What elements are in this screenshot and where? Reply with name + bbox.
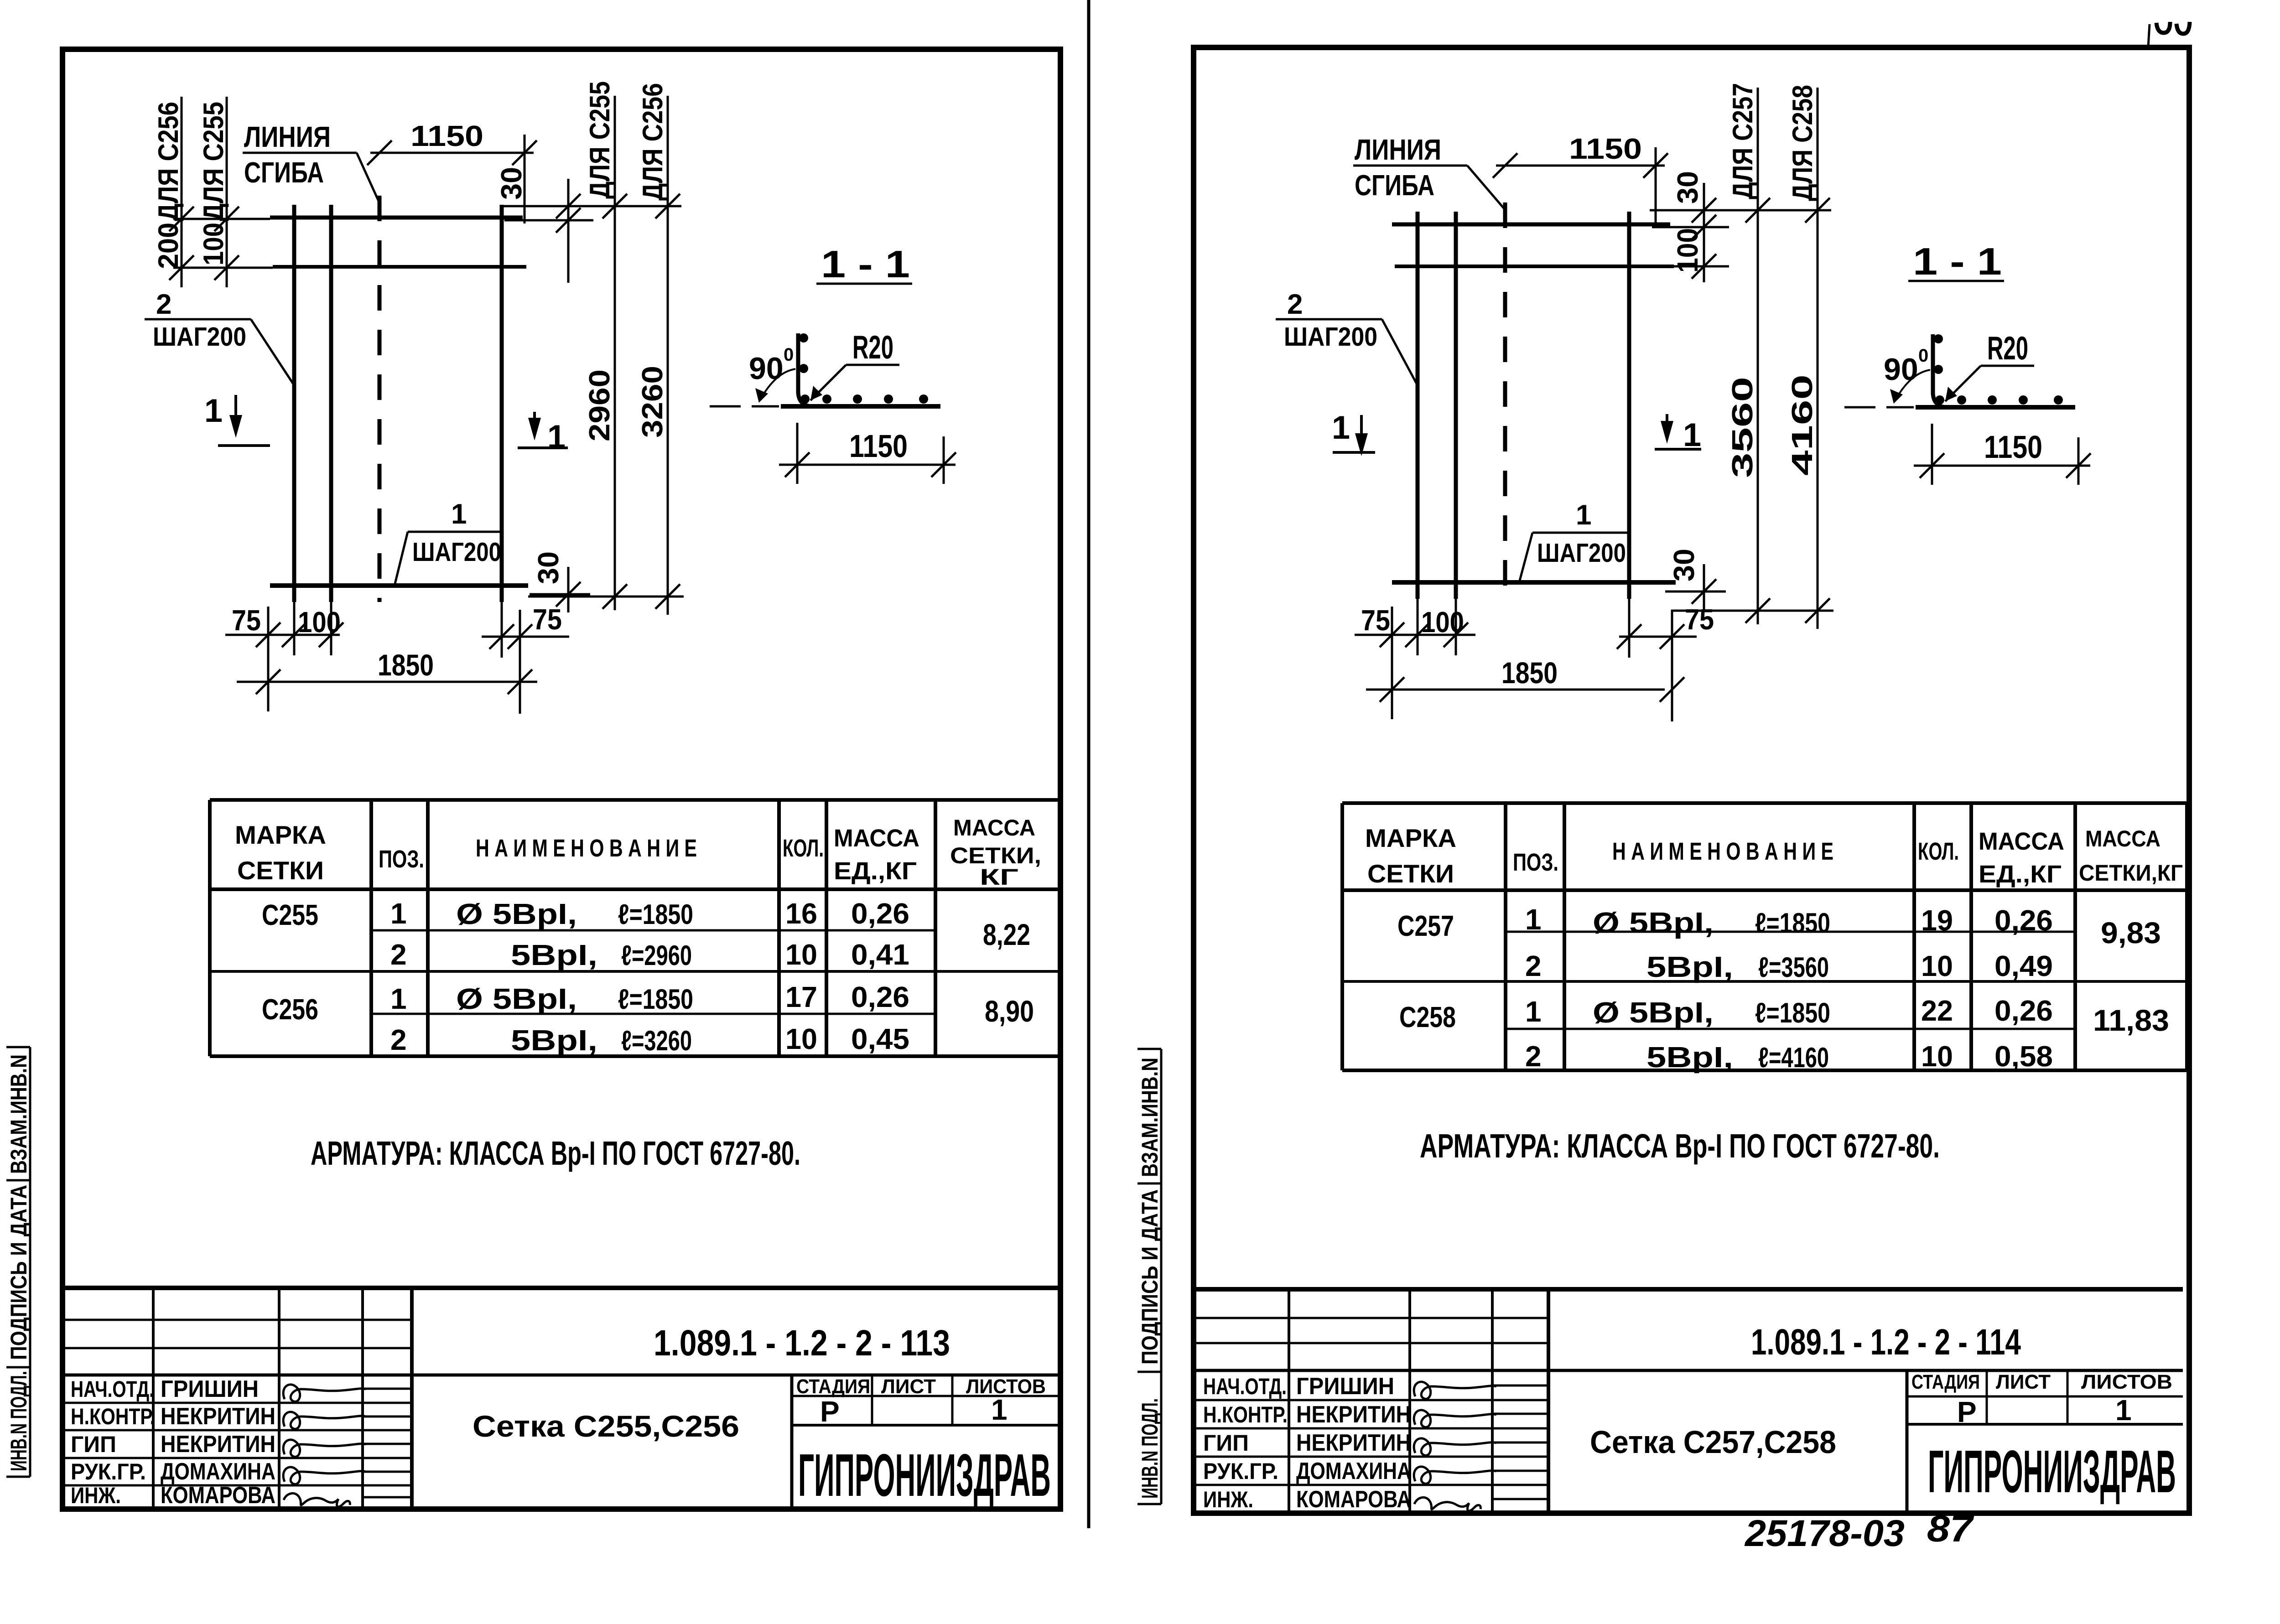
section: mesh bar (horizontal): [781, 404, 940, 409]
svg-text:1150: 1150: [849, 428, 908, 464]
svg-text:СЕТКИ: СЕТКИ: [1367, 859, 1454, 888]
svg-text:ЕД.,КГ: ЕД.,КГ: [834, 857, 917, 885]
svg-text:КОЛ.: КОЛ.: [1918, 838, 1959, 865]
svg-text:РУК.ГР.: РУК.ГР.: [1203, 1458, 1278, 1484]
dimension 1850 (bottom): [237, 681, 537, 683]
svg-text:90: 90: [1884, 352, 1918, 387]
svg-text:КОМАРОВА: КОМАРОВА: [161, 1482, 275, 1509]
svg-text:5ВрI,: 5ВрI,: [1646, 950, 1733, 983]
svg-text:КОМАРОВА: КОМАРОВА: [1296, 1486, 1411, 1513]
section: bent bar end with R20 bend: [1933, 334, 1948, 407]
svg-text:ИНВ.N ПОДЛ.: ИНВ.N ПОДЛ.: [1137, 1398, 1163, 1499]
stage/sheet table: [871, 1375, 873, 1425]
svg-text:АРМАТУРА: КЛАССА Вр-I ПО ГОСТ: АРМАТУРА: КЛАССА Вр-I ПО ГОСТ 6727-80.: [1420, 1127, 1940, 1165]
svg-text:ВЗАМ.ИНВ.N: ВЗАМ.ИНВ.N: [6, 1054, 31, 1174]
svg-text:17: 17: [785, 981, 817, 1013]
svg-text:0,26: 0,26: [1994, 994, 2053, 1027]
dimension 30 (bottom right, rotated): [1665, 591, 1726, 593]
svg-text:МАССА: МАССА: [1979, 828, 2064, 855]
svg-text:ℓ=1850: ℓ=1850: [618, 984, 693, 1015]
svg-text:1 - 1: 1 - 1: [1913, 240, 2002, 283]
svg-text:1: 1: [991, 1393, 1008, 1426]
specification table grid: [210, 798, 1060, 802]
svg-text:100: 100: [1421, 606, 1464, 638]
svg-text:ℓ=4160: ℓ=4160: [1758, 1042, 1829, 1074]
svg-text:СТАДИЯ: СТАДИЯ: [1911, 1371, 1980, 1393]
svg-text:СТАДИЯ: СТАДИЯ: [796, 1375, 870, 1398]
svg-text:ℓ=1850: ℓ=1850: [618, 899, 693, 930]
svg-text:ПОЗ.: ПОЗ.: [1513, 849, 1558, 876]
title block verticals: [1288, 1289, 1290, 1513]
svg-text:ЛИСТ: ЛИСТ: [881, 1375, 936, 1398]
svg-text:МАРКА: МАРКА: [235, 820, 326, 849]
svg-text:СГИБА: СГИБА: [244, 156, 324, 189]
svg-text:0: 0: [1918, 346, 1928, 366]
svg-text:ℓ=1850: ℓ=1850: [1755, 908, 1830, 939]
svg-text:3260: 3260: [636, 366, 669, 438]
svg-text:16: 16: [785, 897, 817, 930]
svg-text:ПОЗ.: ПОЗ.: [379, 846, 424, 873]
svg-text:С256: С256: [262, 993, 318, 1026]
section: wire dots on horizontal bar: [800, 394, 810, 404]
svg-text:1: 1: [1525, 995, 1542, 1028]
svg-text:Ø 5ВрI,: Ø 5ВрI,: [456, 898, 577, 930]
svg-text:75: 75: [533, 603, 562, 636]
svg-text:Ø 5ВрI,: Ø 5ВрI,: [1593, 906, 1714, 939]
svg-text:1 - 1: 1 - 1: [821, 243, 910, 285]
svg-text:10: 10: [1921, 1040, 1953, 1073]
svg-text:2: 2: [1525, 949, 1542, 982]
mesh longitudinal bar 2: [329, 205, 333, 602]
svg-text:5ВрI,: 5ВрI,: [511, 1024, 597, 1057]
signature row lines: [62, 1402, 412, 1404]
svg-text:1: 1: [390, 982, 407, 1015]
svg-text:1: 1: [1576, 499, 1591, 531]
mesh longitudinal bar 1: [1416, 212, 1420, 599]
svg-text:0,26: 0,26: [1994, 904, 2053, 937]
svg-text:ГРИШИН: ГРИШИН: [1296, 1373, 1394, 1400]
svg-text:0,49: 0,49: [1994, 949, 2053, 982]
leader to fold line: [1467, 166, 1505, 210]
svg-text:ЕД.,КГ: ЕД.,КГ: [1979, 861, 2062, 888]
svg-text:19: 19: [1921, 904, 1953, 937]
title block (right): [1195, 1287, 2183, 1292]
svg-text:1150: 1150: [1984, 429, 2042, 465]
svg-text:ПОДПИСЬ И ДАТА: ПОДПИСЬ И ДАТА: [6, 1185, 31, 1360]
svg-text:Сетка С257,С258: Сетка С257,С258: [1590, 1424, 1836, 1460]
section dimension 1150: [1914, 465, 2090, 467]
svg-text:МАССА: МАССА: [834, 825, 919, 852]
page corner mark (top right, partially cut): [2148, 24, 2150, 47]
dimension 1150 (top): [1496, 165, 1665, 167]
svg-text:5ВрI,: 5ВрI,: [511, 939, 597, 971]
mesh transverse bar bottom: [270, 583, 528, 588]
signatures (handwritten squiggles): [1414, 1382, 1496, 1399]
title block small revision rows: [62, 1319, 412, 1321]
svg-text:НЕКРИТИН: НЕКРИТИН: [161, 1403, 275, 1430]
svg-text:ГИП: ГИП: [71, 1432, 116, 1457]
svg-text:ДОМАХИНА: ДОМАХИНА: [1296, 1458, 1411, 1484]
svg-text:Н А И М Е Н О В А Н И Е: Н А И М Е Н О В А Н И Е: [1612, 838, 1833, 865]
svg-text:1850: 1850: [1501, 656, 1558, 690]
title block (left): [62, 1286, 1060, 1290]
svg-text:РУК.ГР.: РУК.ГР.: [71, 1459, 146, 1484]
signature row lines: [1195, 1399, 1548, 1401]
svg-text:30: 30: [1671, 171, 1704, 204]
dimension line B (overall length): [1817, 88, 1819, 629]
title block verticals: [152, 1288, 155, 1509]
svg-text:1150: 1150: [410, 119, 483, 152]
svg-text:Н.КОНТР.: Н.КОНТР.: [1203, 1402, 1288, 1427]
dimension 75 (bottom right): [1619, 636, 1697, 638]
mesh fold line (dashed): [378, 196, 382, 602]
svg-text:30: 30: [1667, 549, 1700, 581]
svg-text:ГИПРОНИИЗДРАВ: ГИПРОНИИЗДРАВ: [798, 1442, 1051, 1509]
mesh transverse bar top: [1392, 223, 1670, 227]
svg-text:ДЛЯ С256: ДЛЯ С256: [153, 102, 184, 221]
svg-text:ГРИШИН: ГРИШИН: [161, 1376, 259, 1402]
svg-text:НАЧ.ОТД.: НАЧ.ОТД.: [71, 1376, 154, 1402]
svg-text:Р: Р: [820, 1395, 840, 1428]
svg-text:Сетка С255,С256: Сетка С255,С256: [473, 1409, 739, 1443]
svg-text:ГИП: ГИП: [1203, 1430, 1249, 1456]
svg-text:ИНВ.N ПОДЛ.: ИНВ.N ПОДЛ.: [6, 1371, 31, 1471]
svg-text:ДЛЯ С255: ДЛЯ С255: [584, 81, 616, 199]
svg-text:2: 2: [390, 1023, 407, 1056]
svg-text:1: 1: [204, 393, 223, 429]
mesh longitudinal bar 1: [292, 205, 296, 602]
drawing sheet frame (left, C255/C256): [62, 49, 1060, 1509]
svg-text:100: 100: [298, 606, 341, 638]
dimension 30 (top right, rotated): [1703, 183, 1705, 282]
svg-text:200: 200: [153, 223, 184, 269]
svg-text:75: 75: [232, 604, 261, 637]
dimension 75 (bottom right): [482, 636, 569, 638]
dimension 1150 (top): [370, 152, 534, 154]
section: wire dots on horizontal bar: [1935, 395, 1944, 405]
svg-text:МАССА: МАССА: [2085, 826, 2161, 851]
section: wire dots on vertical leg: [1934, 334, 1943, 343]
svg-text:10: 10: [1921, 949, 1953, 982]
svg-text:0,58: 0,58: [1994, 1040, 2053, 1073]
dimension line A (mesh length): [1757, 88, 1759, 624]
svg-text:С255: С255: [262, 898, 318, 931]
stage/sheet table: [1986, 1370, 1988, 1424]
svg-text:75: 75: [1361, 604, 1390, 637]
dimension 100 (right, rotated): [1672, 265, 1729, 268]
svg-text:1: 1: [1525, 903, 1542, 936]
title block mid separator: [1195, 1369, 2183, 1372]
svg-text:Н.КОНТР.: Н.КОНТР.: [71, 1404, 155, 1429]
svg-text:1: 1: [1332, 410, 1350, 446]
svg-text:1.089.1 - 1.2 - 2 - 114: 1.089.1 - 1.2 - 2 - 114: [1751, 1322, 2021, 1362]
svg-text:4160: 4160: [1786, 374, 1818, 476]
svg-text:ГИПРОНИИЗДРАВ: ГИПРОНИИЗДРАВ: [1928, 1438, 2176, 1505]
section dimension 1150: [779, 464, 956, 466]
dimension 75 / 100 (bottom left): [1355, 634, 1475, 636]
svg-text:8,22: 8,22: [983, 918, 1030, 951]
svg-text:0,26: 0,26: [851, 981, 909, 1013]
svg-text:1150: 1150: [1569, 132, 1642, 165]
svg-text:1.089.1 - 1.2 - 2 - 113: 1.089.1 - 1.2 - 2 - 113: [654, 1323, 950, 1363]
svg-text:ДЛЯ С256: ДЛЯ С256: [637, 83, 669, 201]
svg-text:0,26: 0,26: [851, 897, 909, 930]
svg-text:ЛИНИЯ: ЛИНИЯ: [244, 120, 331, 153]
svg-text:0,41: 0,41: [851, 938, 909, 971]
svg-text:ДОМАХИНА: ДОМАХИНА: [161, 1458, 275, 1485]
mesh transverse bar mid: [273, 265, 526, 269]
svg-text:5ВрI,: 5ВрI,: [1646, 1041, 1733, 1074]
mesh transverse bar mid: [1395, 265, 1674, 268]
svg-text:1: 1: [390, 897, 407, 930]
drawing sheet frame (right, C257/C258): [1194, 47, 2189, 1513]
svg-text:ℓ=1850: ℓ=1850: [1755, 997, 1830, 1029]
svg-text:10: 10: [785, 1022, 817, 1055]
svg-text:0: 0: [784, 345, 794, 365]
extra rows in date column: [1492, 1385, 1548, 1387]
svg-text:Ø 5ВрI,: Ø 5ВрI,: [1593, 996, 1714, 1029]
dimension 75 / 100 (bottom left): [225, 634, 340, 636]
svg-text:Н А И М Е Н О В А Н И Е: Н А И М Е Н О В А Н И Е: [476, 835, 697, 862]
dimension 1850 (bottom): [1366, 689, 1665, 691]
svg-text:3560: 3560: [1726, 377, 1759, 478]
svg-text:R20: R20: [852, 329, 893, 366]
svg-text:ДЛЯ С255: ДЛЯ С255: [198, 102, 229, 221]
svg-text:ℓ=3560: ℓ=3560: [1758, 952, 1829, 983]
svg-text:ЛИНИЯ: ЛИНИЯ: [1355, 133, 1441, 166]
inventory sidebar (left): [29, 1047, 31, 1477]
mesh longitudinal bar 2: [1454, 212, 1458, 599]
svg-text:9,83: 9,83: [2101, 916, 2161, 949]
svg-text:МАРКА: МАРКА: [1365, 824, 1456, 852]
svg-text:100: 100: [198, 223, 229, 265]
svg-text:С257: С257: [1397, 909, 1454, 942]
svg-text:ДЛЯ С257: ДЛЯ С257: [1727, 83, 1759, 199]
svg-text:8,90: 8,90: [985, 994, 1034, 1028]
mesh fold line (dashed): [1503, 202, 1507, 599]
specification table grid: [1342, 801, 2187, 805]
svg-text:НЕКРИТИН: НЕКРИТИН: [1296, 1401, 1411, 1428]
svg-text:С258: С258: [1399, 1001, 1456, 1033]
svg-text:ШАГ200: ШАГ200: [153, 322, 246, 352]
svg-text:ШАГ200: ШАГ200: [1284, 322, 1377, 352]
dimension line A (mesh length): [614, 96, 616, 610]
section: wire dots on vertical leg: [799, 333, 808, 342]
svg-text:ВЗАМ.ИНВ.N: ВЗАМ.ИНВ.N: [1137, 1058, 1163, 1177]
svg-text:2: 2: [390, 938, 407, 971]
mesh transverse bar top: [270, 216, 523, 220]
svg-text:ЛИСТ: ЛИСТ: [1996, 1371, 2051, 1393]
svg-text:СЕТКИ: СЕТКИ: [237, 856, 324, 885]
svg-text:100: 100: [1671, 228, 1704, 273]
svg-text:СГИБА: СГИБА: [1355, 169, 1434, 202]
svg-text:ИНЖ.: ИНЖ.: [1203, 1487, 1253, 1512]
title block small revision rows: [1195, 1317, 1548, 1319]
svg-text:30: 30: [495, 167, 528, 200]
section: mesh bar (horizontal): [1916, 405, 2075, 410]
section: bent bar end with R20 bend: [798, 333, 813, 406]
svg-text:ДЛЯ С258: ДЛЯ С258: [1787, 85, 1818, 201]
svg-text:2: 2: [1525, 1040, 1542, 1073]
svg-text:75: 75: [1685, 603, 1714, 636]
svg-text:25178-03: 25178-03: [1744, 1513, 1905, 1554]
svg-text:КОЛ.: КОЛ.: [783, 835, 824, 862]
svg-text:Р: Р: [1957, 1396, 1977, 1428]
svg-text:87: 87: [1927, 1508, 1974, 1550]
dimension 30 (top right, rotated): [567, 179, 570, 283]
svg-text:2: 2: [156, 289, 171, 320]
svg-text:НЕКРИТИН: НЕКРИТИН: [1296, 1430, 1411, 1456]
section: concrete surface dashes: [710, 405, 741, 408]
inventory sidebar (right): [1160, 1049, 1163, 1504]
title block bottom line: [1195, 1510, 2183, 1516]
svg-text:11,83: 11,83: [2093, 1003, 2169, 1037]
title block mid separator: [62, 1374, 1060, 1377]
svg-text:2: 2: [1287, 289, 1303, 320]
svg-text:1: 1: [2115, 1394, 2132, 1427]
scan page separator line: [1087, 0, 1091, 1528]
svg-text:НЕКРИТИН: НЕКРИТИН: [161, 1431, 275, 1458]
leader to fold line: [357, 153, 379, 203]
svg-text:22: 22: [1921, 994, 1953, 1027]
svg-text:КГ: КГ: [980, 864, 1018, 890]
svg-text:ЛИСТОВ: ЛИСТОВ: [2081, 1371, 2172, 1393]
dimension line B (overall length): [667, 96, 669, 615]
signatures (handwritten squiggles): [283, 1385, 366, 1402]
svg-text:МАССА: МАССА: [953, 815, 1035, 841]
svg-text:R20: R20: [1987, 330, 2028, 367]
svg-text:НАЧ.ОТД.: НАЧ.ОТД.: [1203, 1374, 1287, 1399]
svg-text:ℓ=2960: ℓ=2960: [621, 940, 692, 971]
svg-text:АРМАТУРА: КЛАССА Вр-I ПО ГОСТ: АРМАТУРА: КЛАССА Вр-I ПО ГОСТ 6727-80.: [311, 1134, 800, 1172]
svg-text:30: 30: [532, 551, 565, 584]
extra rows in date column: [363, 1388, 412, 1390]
svg-text:Ø 5ВрI,: Ø 5ВрI,: [456, 982, 577, 1015]
svg-text:2960: 2960: [583, 369, 616, 441]
svg-text:10: 10: [785, 938, 817, 971]
svg-text:ШАГ200: ШАГ200: [1537, 538, 1626, 568]
dimension 30 (bottom right, rotated): [530, 593, 590, 596]
svg-text:ИНЖ.: ИНЖ.: [71, 1483, 121, 1508]
top-left overhang dimension lines: [181, 97, 183, 287]
title block bottom line: [62, 1506, 1060, 1512]
svg-text:ПОДПИСЬ И ДАТА: ПОДПИСЬ И ДАТА: [1137, 1189, 1163, 1365]
mesh longitudinal bar 3: [500, 205, 504, 602]
svg-text:СЕТКИ,КГ: СЕТКИ,КГ: [2079, 860, 2183, 886]
svg-text:0,45: 0,45: [851, 1022, 909, 1055]
mesh transverse bar bottom: [1392, 580, 1676, 585]
section: concrete surface dashes: [1844, 406, 1875, 409]
mesh longitudinal bar 3: [1627, 212, 1631, 599]
svg-text:1: 1: [547, 419, 566, 455]
svg-text:ℓ=3260: ℓ=3260: [621, 1025, 692, 1057]
svg-text:1: 1: [451, 498, 467, 530]
svg-text:1850: 1850: [378, 648, 434, 682]
svg-text:ШАГ200: ШАГ200: [412, 537, 501, 567]
svg-text:90: 90: [749, 351, 784, 386]
